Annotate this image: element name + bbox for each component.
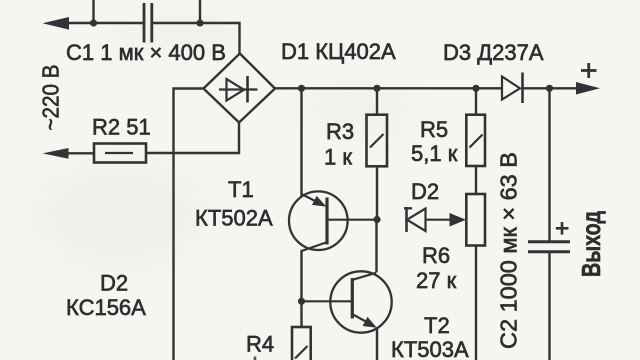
svg-text:КТ503А: КТ503А [391, 337, 469, 360]
wire: stub up from middle dot to edge [199, 0, 201, 23]
svg-text:~220 В: ~220 В [38, 65, 64, 131]
wire: bridge left vertex to left-down rail [174, 89, 204, 360]
node: dot R3 column [373, 85, 380, 92]
capacitor C2 [528, 88, 570, 360]
label: plus sign at C2 [556, 222, 569, 235]
wire: stub up from dot to edge [92, 0, 94, 23]
svg-text:R4: R4 [246, 332, 274, 357]
capacitor C1 plates [144, 3, 152, 43]
svg-text:5,1 к: 5,1 к [411, 141, 458, 166]
resistor R5 [466, 88, 485, 194]
wire: T2 emitter down [376, 328, 378, 360]
wire: bridge bottom vertex to R2 [146, 123, 239, 154]
resistor R2 [94, 144, 146, 163]
label: D3 type [443, 40, 544, 65]
label: C2 value rotated [496, 152, 522, 349]
node: junction dot top-left [90, 19, 97, 26]
diode bridge D1 outline [204, 54, 276, 123]
svg-text:КС156А: КС156А [66, 295, 146, 320]
label: T1 [195, 177, 273, 231]
svg-text:T1: T1 [228, 177, 254, 202]
label: R6 [416, 243, 457, 293]
svg-text:D2: D2 [100, 271, 128, 296]
node: dot T1 emitter column [298, 85, 305, 92]
arrow: AC line left (top) [43, 17, 70, 30]
wire: R2 to left arrow [66, 152, 94, 154]
node: dot T2 base / R4 [298, 298, 305, 305]
label: R3 [324, 119, 354, 170]
label: D2 (zener) [411, 179, 439, 204]
svg-text:R2 51: R2 51 [92, 115, 151, 140]
label: Vykhod rotated [576, 211, 606, 277]
arrow: plus output [576, 82, 600, 95]
label: T2 [391, 313, 469, 360]
wire: DC plus rail [275, 87, 580, 89]
trimmer R6 [466, 194, 485, 360]
svg-text:C1 1 мк × 400 В: C1 1 мк × 400 В [66, 40, 226, 65]
node: dot base/R3/D2/T2-collector [373, 216, 380, 223]
wire: corner down to bridge top [238, 22, 240, 55]
label: R5 [411, 117, 458, 166]
label: plus sign top right [581, 63, 597, 78]
wire: T2 collector up [375, 220, 377, 273]
label: R4 [246, 332, 274, 357]
resistor R4 [292, 327, 311, 360]
resistor R3 [367, 88, 388, 219]
svg-text:R5: R5 [420, 117, 448, 142]
label: D2 zener type (bottom left) [66, 271, 146, 321]
label: D1 type [281, 39, 396, 64]
svg-text:C2 1000 мк × 63 В: C2 1000 мк × 63 В [496, 152, 522, 349]
svg-text:D3 Д237А: D3 Д237А [443, 40, 544, 65]
arrow: R6 wiper [450, 213, 467, 227]
svg-text:R6: R6 [422, 243, 450, 268]
svg-text:D2: D2 [411, 179, 439, 204]
svg-text:Выход: Выход [576, 211, 606, 277]
node: dot R5 column [472, 85, 479, 92]
wire: AC top rail [60, 22, 241, 24]
label: cut-off value below R4 [254, 357, 257, 360]
transistor T1 [289, 191, 348, 251]
label: C1 value [66, 40, 226, 65]
svg-text:T2: T2 [424, 313, 450, 338]
svg-text:27 к: 27 к [416, 268, 457, 293]
wire: T1 collector down [300, 250, 302, 327]
wire: T2 base lead [302, 300, 353, 302]
arrow: AC line left (bottom) [43, 148, 69, 159]
wire: T1 base lead [328, 219, 377, 221]
node: dot after D3 (C2 tap) [546, 85, 553, 92]
diode D3 [502, 73, 523, 104]
label: R2 value [92, 115, 151, 140]
svg-text:1 к: 1 к [324, 145, 352, 170]
transistor T2 [330, 271, 391, 332]
svg-text:D1 КЦ402А: D1 КЦ402А [281, 39, 396, 64]
label: ~220 V rotated [38, 65, 64, 131]
node: junction dot top-middle [196, 19, 203, 26]
svg-text:КТ502А: КТ502А [195, 206, 273, 231]
wire: down to T1 emitter [300, 88, 302, 196]
zener D2 [404, 207, 451, 232]
diode inside bridge [219, 76, 258, 103]
svg-text:R3: R3 [326, 119, 354, 144]
